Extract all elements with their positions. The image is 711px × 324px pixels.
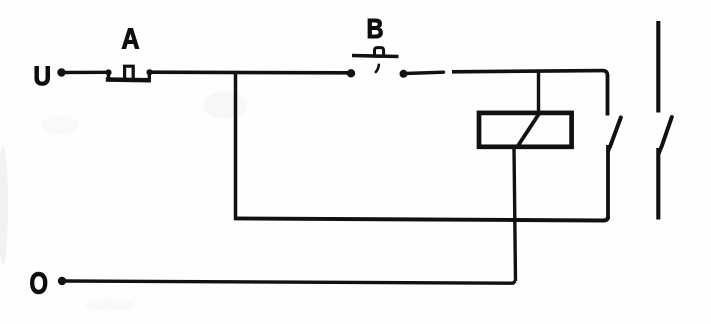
node U terminal dot [57,68,65,76]
node O terminal dot [58,277,66,285]
wire down to relay coil [537,71,540,111]
relay contact K2 blade [659,117,672,153]
relay contact K2 upper terminal [656,21,660,113]
wire continuing to right corner [452,71,608,77]
relay coil diagonal [518,112,541,147]
relay contact K1 blade [608,118,621,151]
relay contact K2 lower terminal [656,148,660,220]
wire coil to O line [514,147,516,281]
relay contact K1 lower terminal [606,145,610,219]
wire U to pushbutton A [63,71,108,75]
latch wire (middle horizontal) [234,217,608,221]
relay contact K1 upper terminal [606,75,610,116]
wire B to relay branch [405,72,444,73]
wire O line (bottom) [64,281,516,283]
svg-text:U: U [34,61,52,91]
relay coil K (rectangle) [479,113,572,147]
svg-text:B: B [367,13,384,44]
junction / wire down to latch line [234,72,238,217]
svg-text:A: A [122,24,140,56]
svg-text:O: O [30,266,49,301]
pushbutton B (stop, NC momentary) [347,48,408,78]
wire A to B [149,70,349,74]
pushbutton A (start, NO momentary) [105,66,152,80]
